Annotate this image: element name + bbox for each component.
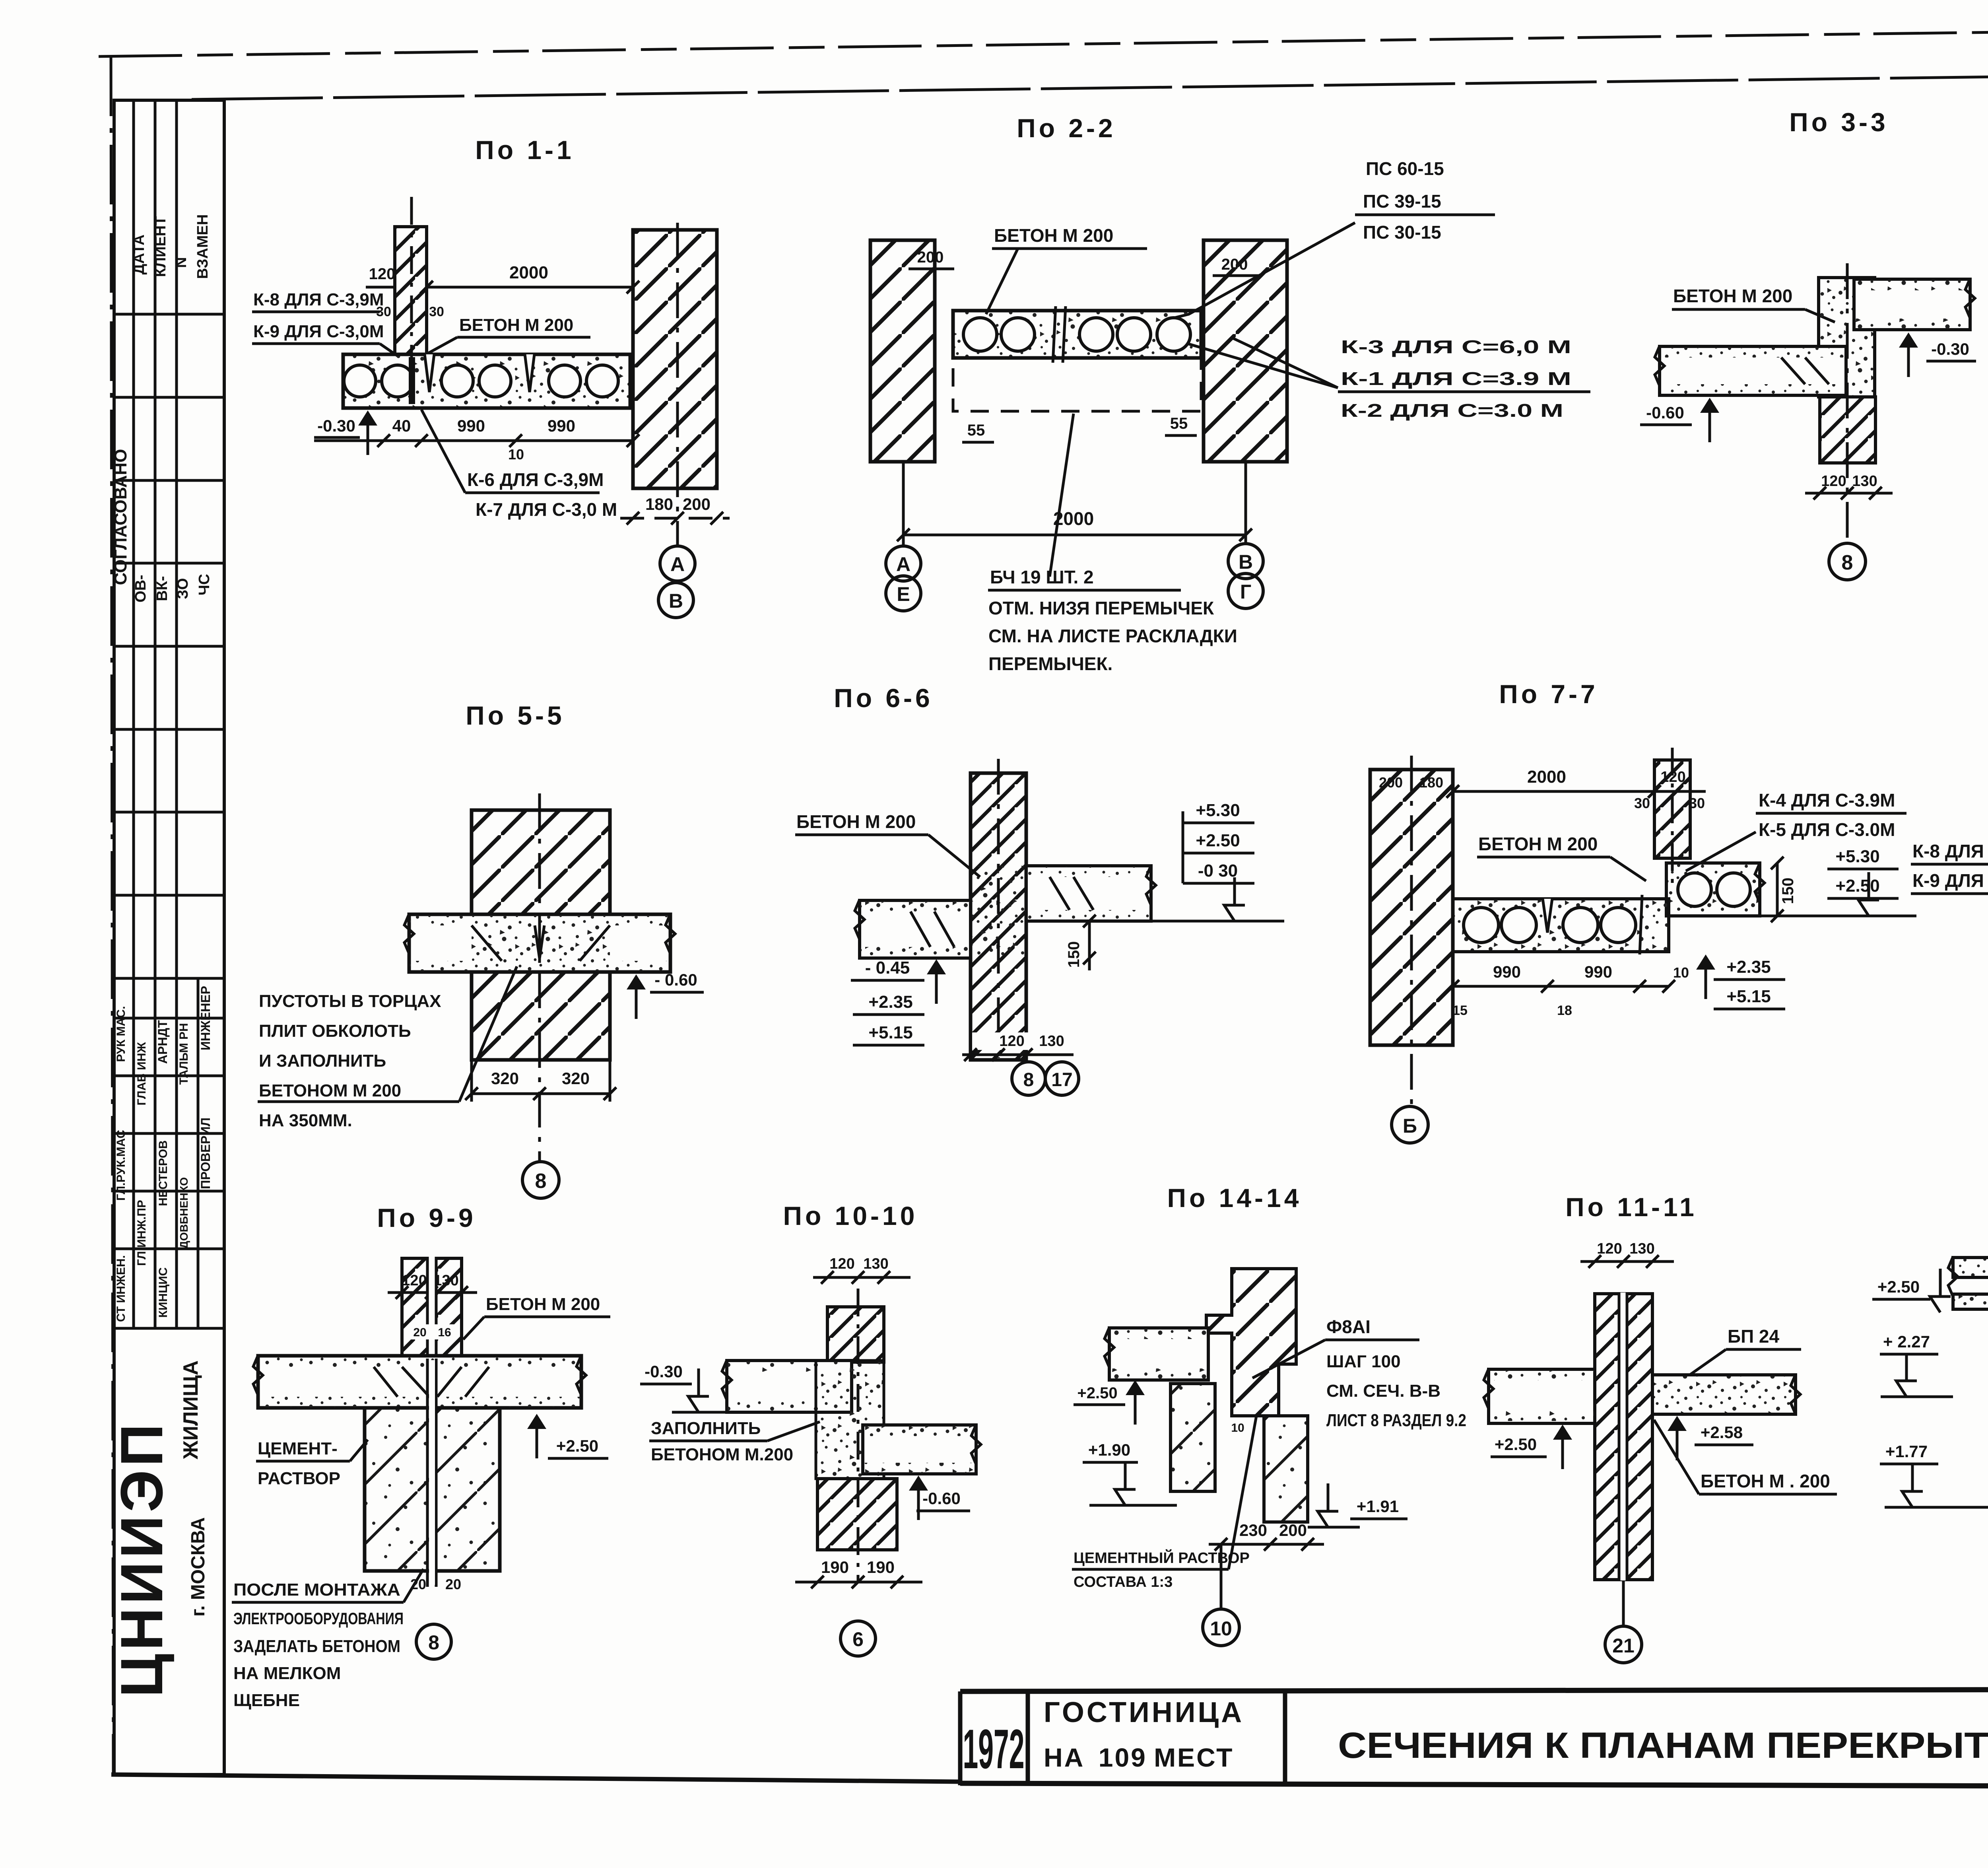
svg-text:БЧ 19 ШТ. 2: БЧ 19 ШТ. 2: [990, 567, 1094, 587]
svg-text:К-1 ДЛЯ С=3.9 М: К-1 ДЛЯ С=3.9 М: [1341, 368, 1571, 389]
leader from PS to slab: [1173, 223, 1355, 318]
level +2.50: [1553, 1425, 1572, 1469]
level -0.60: [1700, 398, 1719, 442]
svg-text:БЕТОН М 200: БЕТОН М 200: [1673, 286, 1792, 306]
svg-text:-0.30: -0.30: [317, 416, 355, 435]
left slab: [1109, 1328, 1208, 1380]
svg-text:-0.30: -0.30: [1931, 340, 1969, 358]
svg-text:РУК МАС.: РУК МАС.: [115, 1006, 128, 1062]
svg-text:БЕТОН М 200: БЕТОН М 200: [994, 225, 1113, 246]
svg-text:К-9 ДЛЯ С-3,0М: К-9 ДЛЯ С-3,0М: [253, 322, 384, 341]
svg-text:ЦЕМЕНТ-: ЦЕМЕНТ-: [258, 1439, 338, 1458]
wall: [971, 773, 1026, 1060]
svg-text:БЕТОН М . 200: БЕТОН М . 200: [1701, 1471, 1830, 1491]
level +1.91: [1318, 1483, 1338, 1527]
anchor mark: [409, 357, 415, 404]
svg-text:ГЛ.РУК.МАС: ГЛ.РУК.МАС: [115, 1130, 128, 1201]
svg-text:+2.50: +2.50: [1196, 831, 1240, 850]
svg-text:30: 30: [1634, 795, 1650, 811]
svg-text:ДАТА: ДАТА: [131, 235, 148, 275]
svg-text:БЕТОН М 200: БЕТОН М 200: [796, 811, 916, 832]
svg-text:СМ. НА ЛИСТЕ РАСКЛАДКИ: СМ. НА ЛИСТЕ РАСКЛАДКИ: [988, 626, 1237, 646]
svg-text:+5.15: +5.15: [868, 1023, 912, 1042]
svg-text:ВЗАМЕН: ВЗАМЕН: [194, 214, 211, 279]
wall: [1595, 1294, 1652, 1580]
svg-text:+2.35: +2.35: [868, 992, 912, 1012]
150 vertical dim: [1088, 921, 1091, 970]
wall right: [1204, 240, 1287, 462]
left border dash-dot: [111, 56, 113, 1775]
svg-text:990: 990: [1584, 962, 1612, 981]
svg-text:ШАГ 100: ШАГ 100: [1326, 1352, 1401, 1371]
dims 190 190: [795, 1581, 922, 1584]
wall right: [633, 230, 717, 488]
svg-text:По 11-11: По 11-11: [1565, 1192, 1697, 1222]
svg-text:2000: 2000: [1527, 767, 1566, 787]
slab with hollow cores: [343, 354, 630, 408]
svg-text:10: 10: [1231, 1421, 1244, 1435]
svg-text:ПС 39-15: ПС 39-15: [1363, 191, 1441, 212]
svg-text:ПС 60-15: ПС 60-15: [1366, 158, 1444, 179]
svg-text:120: 120: [829, 1256, 854, 1272]
svg-text:20: 20: [445, 1576, 461, 1592]
svg-text:ЖИЛИЩА: ЖИЛИЩА: [179, 1361, 202, 1460]
right slab: [1652, 1375, 1796, 1414]
svg-text:НА 109 МЕСТ: НА 109 МЕСТ: [1044, 1743, 1234, 1772]
svg-text:21: 21: [1612, 1635, 1635, 1657]
svg-text:СОГЛАСОВАНО: СОГЛАСОВАНО: [111, 449, 130, 585]
svg-text:+2.50: +2.50: [1877, 1277, 1920, 1296]
dims 120 130: [398, 1271, 467, 1290]
svg-text:+2.58: +2.58: [1701, 1423, 1743, 1442]
concrete fill: [816, 1361, 884, 1479]
left slab: [860, 900, 971, 958]
svg-text:ПС 30-15: ПС 30-15: [1363, 222, 1441, 243]
svg-text:По 7-7: По 7-7: [1499, 679, 1598, 709]
svg-text:ГЛ.ИНЖ.ПР: ГЛ.ИНЖ.ПР: [135, 1200, 148, 1266]
svg-text:По 1-1: По 1-1: [475, 135, 574, 165]
svg-text:150: 150: [1779, 878, 1797, 904]
joint wedges in slab: [425, 354, 434, 392]
svg-text:НА МЕЛКОМ: НА МЕЛКОМ: [233, 1664, 341, 1683]
svg-text:+2.50: +2.50: [1077, 1384, 1117, 1402]
svg-text:ДОВБНЕНКО: ДОВБНЕНКО: [178, 1177, 190, 1249]
svg-text:130: 130: [1852, 473, 1877, 490]
svg-text:К-6 ДЛЯ С-3,9М: К-6 ДЛЯ С-3,9М: [467, 469, 604, 490]
plate joint break: [1053, 306, 1056, 363]
dim row: [1453, 985, 1669, 988]
level -0.30: [1899, 332, 1918, 377]
svg-text:ЦЕМЕНТНЫЙ РАСТВОР: ЦЕМЕНТНЫЙ РАСТВОР: [1074, 1549, 1250, 1567]
svg-text:БП 24: БП 24: [1728, 1326, 1779, 1347]
svg-text:По 10-10: По 10-10: [783, 1201, 918, 1230]
left slab: [1660, 346, 1846, 395]
cement block: [365, 1408, 500, 1571]
outer top border dashed: [99, 23, 1988, 56]
svg-text:1972: 1972: [963, 1718, 1025, 1780]
left slab: [727, 1361, 852, 1412]
big wall: [472, 810, 610, 1060]
axis: [997, 759, 1000, 1058]
svg-text:СТ ИНЖЕН.: СТ ИНЖЕН.: [115, 1255, 128, 1322]
svg-text:+2.35: +2.35: [1726, 957, 1771, 977]
bubble Б: [1392, 1106, 1428, 1143]
svg-text:120: 120: [369, 265, 396, 283]
svg-text:990: 990: [1493, 962, 1521, 981]
big wall left: [1370, 770, 1453, 1045]
svg-text:990: 990: [547, 416, 575, 435]
top slab band 1: [1953, 1258, 1988, 1277]
svg-text:А: А: [670, 553, 685, 575]
svg-text:320: 320: [491, 1069, 519, 1088]
svg-text:БЕТОНОМ М 200: БЕТОНОМ М 200: [259, 1081, 401, 1100]
svg-text:8: 8: [1023, 1069, 1034, 1090]
svg-text:ЗАДЕЛАТЬ БЕТОНОМ: ЗАДЕЛАТЬ БЕТОНОМ: [233, 1637, 400, 1656]
level -0.60: [909, 1475, 928, 1520]
svg-text:По 5-5: По 5-5: [466, 701, 565, 730]
svg-text:20: 20: [410, 1576, 426, 1592]
bubble 6: [841, 1621, 876, 1656]
svg-text:По 14-14: По 14-14: [1167, 1183, 1302, 1213]
svg-text:ЩЕБНЕ: ЩЕБНЕ: [233, 1691, 300, 1710]
dim 120 130: [972, 1032, 1072, 1050]
svg-text:-0.30: -0.30: [645, 1362, 683, 1381]
svg-text:РАСТВОР: РАСТВОР: [258, 1469, 340, 1488]
level +2.58: [1668, 1416, 1687, 1460]
svg-text:180: 180: [645, 495, 673, 513]
svg-text:К-5 ДЛЯ С-3.0М: К-5 ДЛЯ С-3.0М: [1759, 819, 1895, 840]
right slab: [1854, 279, 1970, 330]
svg-text:Б: Б: [1403, 1115, 1417, 1137]
svg-text:150: 150: [1065, 941, 1083, 968]
slab: [953, 311, 1201, 358]
axis: [1846, 263, 1849, 543]
svg-text:ПЛИТ ОБКОЛОТЬ: ПЛИТ ОБКОЛОТЬ: [259, 1021, 411, 1041]
main slab: [1453, 899, 1669, 952]
svg-text:8: 8: [428, 1631, 439, 1654]
bubble 8: [522, 1162, 559, 1198]
svg-text:ЗАПОЛНИТЬ: ЗАПОЛНИТЬ: [651, 1419, 761, 1438]
stepped wall: [1206, 1269, 1296, 1416]
svg-text:В: В: [669, 590, 683, 612]
svg-text:ЗО: ЗО: [175, 578, 191, 599]
right slab: [1666, 863, 1760, 916]
dim row: [314, 439, 633, 442]
right slab lower: [863, 1425, 976, 1474]
level -0.30: [358, 410, 377, 455]
svg-text:- 0.45: - 0.45: [865, 958, 910, 978]
inner top border: [192, 68, 1988, 99]
wall stub top: [395, 227, 427, 354]
left slab: [1489, 1369, 1595, 1423]
svg-text:СОСТАВА 1:3: СОСТАВА 1:3: [1074, 1574, 1173, 1590]
level -0.60: [627, 974, 646, 1019]
svg-text:16: 16: [438, 1326, 451, 1339]
svg-text:8: 8: [1842, 551, 1853, 574]
svg-text:200: 200: [917, 249, 944, 266]
small wall stub: [1654, 760, 1690, 858]
svg-text:БЕТОН М 200: БЕТОН М 200: [1478, 834, 1598, 854]
svg-text:Е: Е: [897, 583, 910, 605]
svg-text:- 0.60: - 0.60: [654, 970, 697, 989]
svg-text:-0.60: -0.60: [922, 1489, 961, 1508]
axis: [538, 793, 541, 1160]
svg-text:ГЛАВ ИНЖ: ГЛАВ ИНЖ: [135, 1042, 148, 1105]
svg-text:НА 350ММ.: НА 350ММ.: [259, 1111, 352, 1130]
svg-text:По 9-9: По 9-9: [377, 1203, 476, 1232]
svg-text:ОТМ. НИЗЯ ПЕРЕМЫЧЕК: ОТМ. НИЗЯ ПЕРЕМЫЧЕК: [988, 598, 1214, 618]
svg-text:КИНЦИС: КИНЦИС: [157, 1267, 170, 1318]
svg-text:+1.91: +1.91: [1357, 1497, 1399, 1516]
wall stub top: [827, 1307, 884, 1362]
blocks below: [1171, 1384, 1215, 1491]
svg-text:ИНЖЕНЕР: ИНЖЕНЕР: [198, 986, 213, 1050]
svg-text:120: 120: [999, 1033, 1024, 1050]
svg-text:г. МОСКВА: г. МОСКВА: [188, 1517, 209, 1617]
svg-text:КЛИЕНТ: КЛИЕНТ: [152, 216, 169, 277]
svg-text:Г: Г: [1240, 581, 1251, 603]
svg-text:К-2 ДЛЯ С=3.0 М: К-2 ДЛЯ С=3.0 М: [1341, 400, 1563, 421]
axis + bubbles: [676, 223, 679, 546]
svg-text:ПОСЛЕ МОНТАЖА: ПОСЛЕ МОНТАЖА: [233, 1580, 400, 1600]
bubbles: [886, 546, 921, 581]
svg-text:ПУСТОТЫ В ТОРЦАХ: ПУСТОТЫ В ТОРЦАХ: [259, 991, 441, 1011]
svg-text:По 2-2: По 2-2: [1017, 113, 1116, 143]
axis: [1410, 756, 1413, 1106]
svg-text:55: 55: [1170, 415, 1188, 432]
svg-text:+2.50: +2.50: [1495, 1435, 1537, 1454]
svg-text:К-8 ДЛЯ С-3,9М: К-8 ДЛЯ С-3,9М: [253, 290, 384, 309]
level +2.50: [1126, 1380, 1145, 1425]
svg-text:ЭЛЕКТРООБОРУДОВАНИЯ: ЭЛЕКТРООБОРУДОВАНИЯ: [233, 1609, 404, 1628]
svg-text:190: 190: [821, 1558, 849, 1576]
bubble 21: [1622, 1580, 1625, 1626]
svg-text:10: 10: [1210, 1617, 1232, 1640]
svg-text:БЕТОНОМ М.200: БЕТОНОМ М.200: [651, 1445, 793, 1464]
svg-text:N: N: [173, 257, 190, 268]
svg-text:А: А: [896, 553, 911, 575]
svg-text:18: 18: [1557, 1003, 1572, 1018]
level +2.50: [527, 1414, 546, 1458]
svg-text:-0.60: -0.60: [1646, 403, 1684, 422]
dims 320 320: [472, 1092, 610, 1095]
svg-text:130: 130: [863, 1256, 888, 1272]
axis line: [410, 197, 413, 372]
lower wall: [1820, 397, 1875, 463]
svg-text:15: 15: [1452, 1003, 1468, 1018]
svg-text:30: 30: [1689, 795, 1705, 811]
svg-text:200: 200: [1379, 774, 1403, 791]
svg-text:ЦНИИЭП: ЦНИИЭП: [108, 1421, 175, 1697]
svg-text:10: 10: [508, 446, 524, 463]
svg-text:ТАЛЬМ РН: ТАЛЬМ РН: [177, 1023, 190, 1085]
svg-text:ЛИСТ 8 РАЗДЕЛ 9.2: ЛИСТ 8 РАЗДЕЛ 9.2: [1326, 1411, 1466, 1430]
svg-text:БЕТОН М 200: БЕТОН М 200: [486, 1295, 600, 1314]
svg-text:По 3-3: По 3-3: [1789, 107, 1888, 137]
svg-text:20: 20: [413, 1326, 426, 1339]
svg-text:+5.30: +5.30: [1835, 847, 1879, 866]
svg-text:СМ. СЕЧ. В-В: СМ. СЕЧ. В-В: [1326, 1381, 1441, 1401]
svg-text:ЧС: ЧС: [196, 574, 213, 595]
svg-text:+5.30: +5.30: [1196, 801, 1240, 820]
svg-text:30: 30: [429, 304, 444, 319]
lower wall: [817, 1479, 897, 1550]
conduit: [426, 1359, 429, 1587]
svg-text:130: 130: [1039, 1033, 1064, 1050]
svg-text:-0 30: -0 30: [1198, 861, 1238, 881]
axis lines: [902, 463, 905, 546]
svg-text:+1.90: +1.90: [1088, 1440, 1130, 1459]
bubbles 8 17: [1012, 1062, 1045, 1095]
dim 2000: [427, 286, 633, 289]
concrete joint over wall: [972, 866, 1025, 957]
svg-text:ПРОВЕРИЛ: ПРОВЕРИЛ: [198, 1118, 213, 1189]
svg-text:К-3 ДЛЯ С=6,0 М: К-3 ДЛЯ С=6,0 М: [1341, 336, 1571, 357]
dim 2000: [903, 534, 1246, 536]
wall left: [870, 240, 935, 462]
right slab higher: [1026, 866, 1151, 921]
left levels: [927, 959, 946, 1004]
svg-text:+1.77: +1.77: [1885, 1442, 1928, 1461]
svg-text:БЕТОН М 200: БЕТОН М 200: [459, 315, 573, 335]
svg-text:К-9 ДЛЯ С-3,0М: К-9 ДЛЯ С-3,0М: [1912, 870, 1988, 891]
svg-text:Ф8АI: Ф8АI: [1326, 1316, 1371, 1337]
svg-text:+ 2.27: + 2.27: [1883, 1332, 1930, 1351]
svg-text:+2.50: +2.50: [1835, 876, 1879, 896]
svg-text:К-4 ДЛЯ С-3.9М: К-4 ДЛЯ С-3.9М: [1759, 790, 1895, 811]
svg-text:17: 17: [1051, 1069, 1072, 1090]
bubble 8: [416, 1624, 451, 1659]
svg-text:40: 40: [392, 416, 411, 435]
svg-text:6: 6: [852, 1628, 864, 1650]
svg-text:СЕЧЕНИЯ К ПЛАНАМ ПЕРЕКРЫТИЙ: СЕЧЕНИЯ К ПЛАНАМ ПЕРЕКРЫТИЙ: [1338, 1724, 1988, 1766]
top slab band 2: [1953, 1294, 1988, 1309]
svg-text:200: 200: [683, 495, 711, 513]
svg-text:320: 320: [562, 1069, 590, 1088]
svg-text:230: 230: [1239, 1521, 1267, 1539]
svg-text:120: 120: [1597, 1240, 1622, 1257]
svg-text:ОВ-: ОВ-: [132, 575, 149, 603]
svg-text:ГОСТИНИЦА: ГОСТИНИЦА: [1044, 1697, 1244, 1728]
svg-text:130: 130: [1629, 1240, 1654, 1257]
svg-text:К-7 ДЛЯ С-3,0 М: К-7 ДЛЯ С-3,0 М: [476, 499, 617, 520]
svg-text:8: 8: [535, 1170, 547, 1193]
svg-text:55: 55: [967, 422, 985, 439]
svg-text:К-8 ДЛЯ С-3,9 М: К-8 ДЛЯ С-3,9 М: [1912, 841, 1988, 861]
svg-text:2000: 2000: [509, 263, 548, 282]
svg-text:200: 200: [1279, 1521, 1307, 1539]
svg-text:990: 990: [457, 416, 485, 435]
svg-text:+2.50: +2.50: [556, 1436, 598, 1455]
concrete column: [1819, 278, 1875, 397]
svg-text:ВК-: ВК-: [154, 576, 171, 601]
svg-text:180: 180: [1419, 774, 1443, 791]
svg-text:ПЕРЕМЫЧЕК.: ПЕРЕМЫЧЕК.: [988, 653, 1112, 674]
svg-text:И ЗАПОЛНИТЬ: И ЗАПОЛНИТЬ: [259, 1051, 386, 1071]
lintel below dashed: [953, 358, 1201, 411]
svg-text:+5.15: +5.15: [1726, 987, 1771, 1006]
150 vertical dim: [1776, 863, 1779, 916]
svg-text:200: 200: [1221, 256, 1248, 273]
wall stub: [402, 1258, 462, 1357]
bubble 10: [1220, 1544, 1223, 1609]
svg-text:АРНДТ: АРНДТ: [155, 1020, 170, 1064]
svg-text:В: В: [1239, 551, 1253, 573]
slab band: [258, 1356, 581, 1408]
svg-text:НЕСТЕРОВ: НЕСТЕРОВ: [157, 1140, 170, 1206]
svg-text:По 6-6: По 6-6: [834, 683, 933, 713]
bottom border: [111, 1775, 962, 1782]
svg-text:190: 190: [867, 1558, 895, 1576]
slab band across: [409, 914, 670, 972]
level +2.35: [1696, 954, 1715, 999]
svg-text:10: 10: [1673, 964, 1689, 981]
